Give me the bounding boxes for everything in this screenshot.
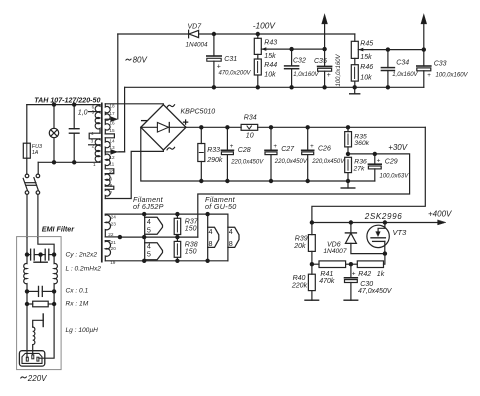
- wire: filament mid rail: [120, 236, 198, 238]
- svg-text:R45: R45: [360, 40, 373, 47]
- svg-text:C27: C27: [281, 146, 295, 153]
- connector X4 (GU-50 socket) pins 4,8: [228, 214, 239, 261]
- wire: R43 wiper bias wire: [292, 48, 325, 50]
- svg-text:2: 2: [92, 143, 95, 148]
- svg-text:KBPC5010: KBPC5010: [181, 108, 216, 115]
- svg-text:18: 18: [109, 104, 115, 109]
- connector X2 (6J52P socket) pins 4,5: [145, 237, 163, 261]
- svg-text:4: 4: [209, 227, 213, 236]
- wire: -100V top rail: [118, 33, 355, 35]
- svg-text:5: 5: [147, 225, 151, 234]
- svg-text:C29: C29: [385, 158, 398, 165]
- wire: left column to fuse: [26, 105, 28, 144]
- svg-text:15: 15: [109, 128, 115, 133]
- capacitor C30: [345, 264, 358, 300]
- svg-text:R43: R43: [264, 39, 277, 46]
- svg-text:5: 5: [92, 109, 95, 114]
- svg-text:20: 20: [111, 246, 117, 251]
- bridge rectifier KBPC5010: [141, 105, 186, 150]
- svg-text:R36: R36: [354, 159, 367, 166]
- capacitor C31: [207, 34, 221, 87]
- ground under R46: [350, 87, 360, 94]
- svg-text:7: 7: [110, 190, 113, 195]
- svg-text:Lg : 100µH: Lg : 100µH: [66, 327, 99, 334]
- svg-text:L : 0.2mHx2: L : 0.2mHx2: [66, 266, 102, 273]
- capacitor C34: [381, 50, 394, 88]
- svg-text:+: +: [377, 157, 381, 164]
- svg-text:+: +: [230, 143, 234, 150]
- wire: right pin of inlet to right rail: [39, 304, 54, 358]
- wire: primary top wire: [27, 104, 100, 106]
- capacitor C29: [368, 154, 381, 181]
- capacitor 1,0: [69, 105, 79, 163]
- svg-text:150: 150: [185, 226, 197, 233]
- svg-text:C32: C32: [293, 57, 306, 64]
- wire: filament top rail: [105, 213, 228, 215]
- svg-text:+: +: [427, 72, 431, 79]
- wire: +30V route to filament mid: [198, 154, 410, 237]
- EMI filter box: [17, 237, 62, 370]
- svg-text:220V: 220V: [27, 374, 47, 383]
- svg-text:Cy : 2n2x2: Cy : 2n2x2: [66, 252, 98, 259]
- capacitor C33: [417, 50, 431, 88]
- wire: bridge + rail: [186, 126, 425, 128]
- svg-text:100,0x160V: 100,0x160V: [436, 73, 469, 79]
- chassis ground (filter): [33, 314, 44, 327]
- svg-text:1N4007: 1N4007: [323, 248, 346, 255]
- secondary winding lower (pins 19-24): [105, 214, 120, 260]
- svg-text:4: 4: [91, 131, 94, 136]
- connector X3 (GU-50 socket) pins 4,8: [208, 214, 219, 261]
- svg-text:C30: C30: [360, 281, 373, 288]
- svg-text:R42: R42: [358, 271, 371, 278]
- svg-text:80V: 80V: [133, 56, 148, 65]
- svg-text:of GU-50: of GU-50: [205, 202, 237, 211]
- resistor R33: [198, 127, 205, 181]
- svg-text:+: +: [327, 72, 331, 79]
- wire: tap 13/12 corner: [117, 151, 125, 153]
- svg-text:21: 21: [111, 240, 117, 245]
- svg-text:R33: R33: [207, 147, 220, 154]
- svg-text:of 6J52P: of 6J52P: [133, 202, 164, 211]
- svg-text:+: +: [310, 143, 314, 150]
- capacitor C26: [302, 127, 314, 181]
- connector X1 (6J52P socket) pins 4,5: [145, 214, 163, 237]
- svg-text:220,0x450V: 220,0x450V: [274, 159, 308, 165]
- svg-text:5: 5: [147, 250, 151, 259]
- svg-text:C28: C28: [238, 147, 251, 154]
- diode VD7: [189, 30, 199, 38]
- svg-text:1N4004: 1N4004: [186, 41, 209, 48]
- wire: pin 18 to bridge AC: [105, 103, 163, 106]
- resistor Rx: [27, 291, 54, 357]
- svg-text:360k: 360k: [354, 140, 369, 147]
- svg-text:R41: R41: [320, 271, 333, 278]
- svg-text:1,0x160V: 1,0x160V: [392, 72, 418, 78]
- resistor R41: [312, 261, 351, 268]
- svg-text:1,0x160V: 1,0x160V: [293, 72, 319, 78]
- svg-text:+: +: [273, 143, 277, 150]
- capacitor Cy (pair): [27, 249, 54, 262]
- svg-text:R37: R37: [185, 219, 199, 226]
- resistor R38: [174, 237, 181, 261]
- svg-text:10: 10: [109, 169, 115, 174]
- tap arrow 17/16: [111, 117, 118, 122]
- capacitor Cx: [27, 286, 54, 296]
- output arrow (bias 1): [322, 14, 328, 34]
- svg-text:16: 16: [109, 121, 115, 126]
- svg-text:R34: R34: [244, 115, 257, 122]
- lamp HL1: [49, 105, 58, 163]
- resistor R42: [351, 254, 385, 268]
- svg-text:13: 13: [109, 145, 115, 150]
- resistor R39: [308, 223, 315, 265]
- svg-text:C33: C33: [434, 60, 447, 67]
- svg-text:20k: 20k: [293, 243, 306, 250]
- +400V arrow: [438, 220, 446, 225]
- svg-text:150: 150: [185, 249, 197, 256]
- svg-text:23: 23: [111, 222, 117, 227]
- svg-text:+: +: [352, 270, 356, 277]
- svg-text:2SK2996: 2SK2996: [364, 212, 403, 221]
- svg-text:10: 10: [246, 133, 254, 140]
- output arrow (bias 2): [421, 14, 427, 49]
- svg-text:10k: 10k: [360, 75, 372, 82]
- svg-text:220,0x450V: 220,0x450V: [311, 159, 345, 165]
- ground under C30: [344, 299, 358, 301]
- resistor R35: [345, 127, 352, 154]
- svg-text:TAH 107-127/220-50: TAH 107-127/220-50: [34, 96, 100, 104]
- svg-text:C26: C26: [318, 146, 331, 153]
- svg-text:+400V: +400V: [428, 210, 452, 219]
- wire: right rail into filter: [38, 238, 54, 255]
- tap arrow 13/12: [111, 150, 118, 155]
- resistor R46: [351, 65, 358, 88]
- capacitor C32: [285, 49, 299, 87]
- svg-text:R39: R39: [295, 235, 308, 242]
- svg-text:C31: C31: [224, 56, 237, 63]
- wire: bridge bottom AC stub: [162, 150, 164, 152]
- wire: primary bottom wire: [38, 161, 100, 163]
- svg-text:1k: 1k: [377, 271, 385, 278]
- svg-text:9: 9: [110, 176, 113, 181]
- svg-text:VD7: VD7: [188, 24, 203, 31]
- svg-text:14: 14: [109, 138, 115, 143]
- svg-text:-100V: -100V: [253, 21, 277, 31]
- diode VD6: [345, 223, 385, 254]
- svg-text:8: 8: [209, 239, 213, 248]
- wire: bottom wire corner to switch: [37, 162, 39, 174]
- wire: pin 7 to bridge AC: [105, 151, 163, 198]
- switch SA1 (DPST): [23, 174, 40, 237]
- svg-text:100,0x160V: 100,0x160V: [336, 53, 342, 86]
- svg-text:100,0x63V: 100,0x63V: [380, 174, 410, 180]
- fuse FU3: [23, 143, 30, 174]
- svg-text:12: 12: [109, 155, 115, 160]
- svg-text:220k: 220k: [291, 282, 308, 289]
- svg-text:27k: 27k: [353, 166, 366, 173]
- resistor R34: [241, 124, 258, 130]
- resistor R44: [254, 59, 261, 87]
- svg-text:C34: C34: [396, 60, 409, 67]
- ground under R36: [341, 181, 355, 188]
- resistor R45 (adjustable): [351, 34, 424, 65]
- svg-text:470k: 470k: [319, 278, 335, 285]
- wire: filament bottom rail: [105, 260, 228, 262]
- label ~220V: [21, 377, 27, 378]
- svg-text:24: 24: [111, 215, 117, 220]
- svg-text:Cx : 0.1: Cx : 0.1: [66, 288, 89, 295]
- svg-text:22: 22: [108, 232, 114, 237]
- svg-text:VT3: VT3: [393, 228, 408, 237]
- ground under R40: [305, 299, 319, 301]
- wire: bridge - output down and right: [141, 127, 375, 181]
- svg-text:+30V: +30V: [388, 143, 408, 152]
- primary winding (pins 1-6): [89, 105, 100, 163]
- svg-text:1A: 1A: [32, 150, 39, 156]
- node: ~80V label: [126, 59, 131, 60]
- svg-text:290k: 290k: [206, 157, 223, 164]
- secondary winding upper (pins 7-18): [105, 104, 114, 199]
- svg-text:10k: 10k: [264, 71, 276, 78]
- svg-text:1,0: 1,0: [78, 110, 88, 117]
- connector XP1 (IEC inlet): [19, 351, 44, 366]
- svg-text:R38: R38: [185, 242, 198, 249]
- inductor Lg: [33, 327, 35, 355]
- svg-text:R40: R40: [293, 275, 306, 282]
- inductor L (common-mode choke): [24, 255, 58, 292]
- capacitor C27: [265, 127, 277, 181]
- svg-text:+: +: [217, 64, 221, 71]
- svg-text:470,0x200V: 470,0x200V: [219, 71, 252, 77]
- wire: vertical from tap 17/16 up to top rail: [117, 34, 119, 119]
- wire: +400V output rail: [312, 222, 438, 224]
- svg-text:11: 11: [109, 161, 114, 166]
- svg-text:R46: R46: [360, 64, 373, 71]
- resistor R37: [174, 214, 181, 237]
- svg-text:15k: 15k: [264, 53, 276, 60]
- svg-text:EMI Filter: EMI Filter: [42, 224, 76, 233]
- wire: vertical from tap 13/12 up to return rail: [119, 87, 125, 152]
- svg-text:220,0x450V: 220,0x450V: [230, 159, 264, 165]
- resistor R43 (adjustable): [254, 34, 291, 59]
- svg-text:1: 1: [93, 162, 96, 167]
- svg-text:17: 17: [109, 111, 115, 116]
- capacitor C28: [221, 127, 233, 181]
- wire: HV rail route to MOSFET section: [312, 127, 425, 222]
- svg-text:47,0x450V: 47,0x450V: [358, 288, 393, 295]
- resistor R40: [308, 264, 315, 300]
- svg-text:8: 8: [229, 239, 233, 248]
- wire: left rail into filter: [26, 238, 28, 255]
- wire: AC return rail y87.3: [125, 86, 424, 88]
- svg-text:8: 8: [110, 183, 113, 188]
- svg-text:R44: R44: [264, 62, 277, 69]
- svg-text:15k: 15k: [360, 54, 372, 61]
- resistor R36: [345, 157, 352, 181]
- transformer core: [101, 103, 103, 261]
- svg-text:Rx : 1M: Rx : 1M: [66, 301, 89, 308]
- svg-text:4: 4: [229, 227, 233, 236]
